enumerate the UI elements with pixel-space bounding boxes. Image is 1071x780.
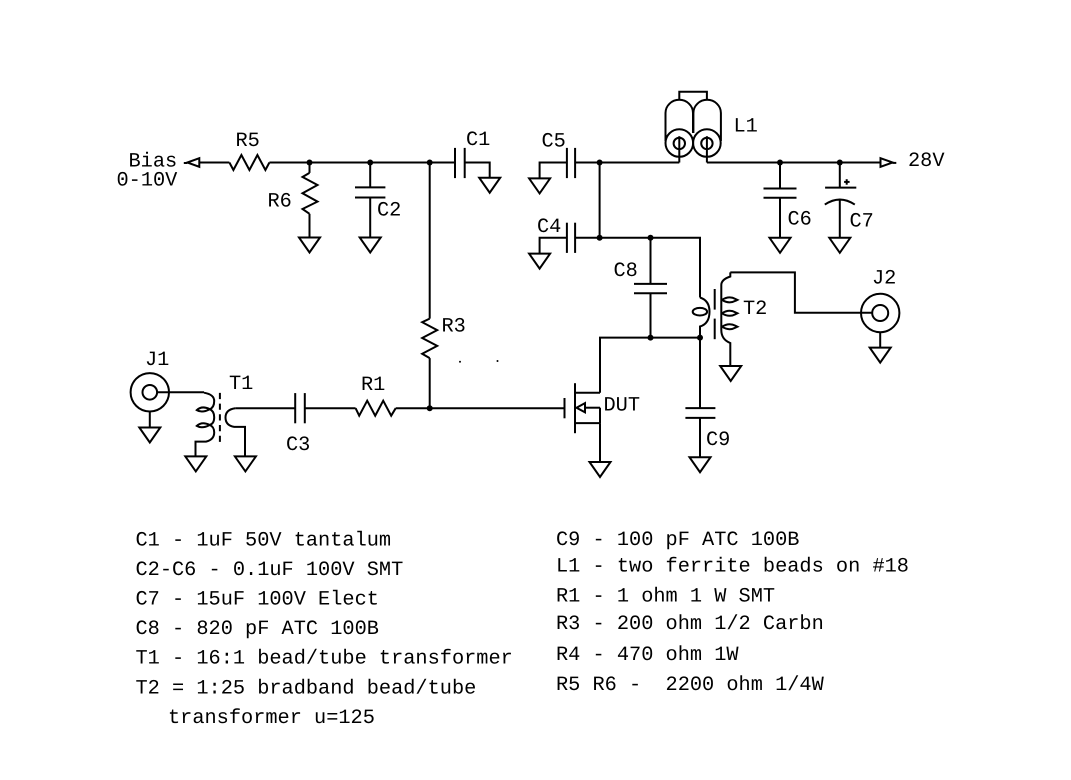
ground (C1) [479,178,500,193]
svg-text:C7 - 15uF 100V Elect: C7 - 15uF 100V Elect [136,589,379,612]
wire junction down to C4 rail [599,163,601,238]
wire DUT source to ground [599,423,601,462]
ground (J1) [139,428,160,443]
svg-text:R3 - 200 ohm 1/2 Carbn: R3 - 200 ohm 1/2 Carbn [556,613,824,636]
wire L1 to 28V arrow (28V rail right) [707,162,880,164]
capacitor C7 polarity plus [844,179,850,185]
svg-text:L1: L1 [734,116,758,139]
svg-text:C2-C6 - 0.1uF 100V SMT: C2-C6 - 0.1uF 100V SMT [136,559,404,582]
wire T1 to C3 [235,407,295,409]
ground (C2) [360,238,381,253]
node junction C6 [777,160,783,166]
transistor DUT source stub [575,422,600,424]
wire R5 to C1 (top bias rail) [269,162,455,164]
wire J1 to ground [149,412,151,428]
wire R6 to ground [309,214,311,238]
ground (C5) [529,178,550,193]
ground (T1 primary) [185,456,206,471]
capacitor C7 top plate [825,187,856,189]
svg-text:J2: J2 [872,268,896,291]
svg-text:R3: R3 [442,315,466,338]
wire C5 left to ground [540,163,567,179]
ground (J2) [870,348,891,363]
ground (C6) [770,238,791,253]
node junction T2/C9 [697,335,703,341]
wire C5 to L1 (28V rail left) [575,162,679,164]
wire C2 to ground [369,198,371,238]
wire L1 top link [679,92,707,100]
bias input arrow [187,158,199,167]
node junction C7 [837,160,843,166]
svg-text:T2: T2 [743,298,767,321]
svg-text:R5 R6 - 2200 ohm 1/4W: R5 R6 - 2200 ohm 1/4W [556,674,825,697]
stray dot 1 [459,361,461,363]
svg-text:C9: C9 [706,429,730,452]
wire C7 to ground [839,200,841,238]
transformer T2 secondary loop 1 [722,297,737,302]
transformer T1 secondary winding [226,408,246,456]
capacitor C6 [764,188,797,190]
svg-text:C1 - 1uF 50V tantalum: C1 - 1uF 50V tantalum [136,529,392,552]
wire bias arrow to R5 [199,162,229,164]
ground (DUT) [590,462,611,477]
svg-text:C5: C5 [542,131,566,154]
node junction C8 top [648,235,654,241]
svg-text:C2: C2 [377,200,401,223]
wire C9 to ground [699,418,701,457]
wire T2 secondary to J2 [730,272,872,312]
svg-text:0-10V: 0-10V [117,170,179,193]
wire junction to C2 [369,163,371,188]
svg-text:C7: C7 [850,211,874,234]
transformer T1 primary tick 2 [197,423,210,427]
wire C4 left to ground [540,238,567,254]
resistor R5 [229,155,269,170]
wire J2 to ground [879,332,881,347]
svg-text:C8 - 820 pF ATC 100B: C8 - 820 pF ATC 100B [136,618,379,641]
stray dot 2 [497,360,499,362]
transformer T1 primary winding [196,393,215,457]
resistor R1 [356,401,396,416]
node junction C5/C4 [597,160,603,166]
wire drain rail [600,338,651,393]
svg-text:R1 - 1 ohm 1 W SMT: R1 - 1 ohm 1 W SMT [556,586,775,609]
svg-text:DUT: DUT [604,394,641,417]
ground (C7) [829,238,850,253]
node junction C1/R3 [427,160,433,166]
svg-text:C4: C4 [537,216,561,239]
transformer T2 secondary loop 3 [722,324,737,329]
capacitor C8 [634,283,667,285]
ground (R6) [299,238,320,253]
transformer T2 primary winding [700,298,710,338]
wire C3 to R1 [305,407,356,409]
capacitor C1 [454,148,456,178]
node junction R3/gate [427,405,433,411]
wire C8 to lower node [650,293,652,337]
capacitor C5 [566,148,568,178]
svg-text:R1: R1 [361,374,385,397]
resistor R3 [422,319,437,359]
capacitor C2 [355,186,385,188]
svg-text:R6: R6 [268,190,292,213]
wire C6 to ground [779,198,781,238]
svg-text:C6: C6 [788,209,812,232]
node junction C8 bottom [648,335,654,341]
wire junction to C6 [779,163,781,189]
transformer T2 core [714,289,716,310]
ground (C9) [690,457,711,472]
transistor DUT gate bar [564,398,566,418]
inductor L1 ferrite bead 1 [666,100,694,141]
svg-text:L1 - two ferrite beads on #18: L1 - two ferrite beads on #18 [556,555,909,578]
28V output arrow [881,158,893,167]
svg-text:J1: J1 [145,349,169,372]
connector J1 [131,373,169,411]
transformer T1 primary tick 1 [197,407,210,411]
svg-text:R5: R5 [236,130,260,153]
ground (T2 secondary) [720,366,741,381]
svg-text:C8: C8 [614,260,638,283]
svg-text:C3: C3 [286,434,310,457]
wire node to C9 [699,338,701,409]
transformer T1 core [219,393,221,444]
node junction R6 [307,160,313,166]
svg-text:28V: 28V [908,150,945,173]
connector J2 [861,294,899,332]
transformer T2 primary bead [693,308,707,316]
node parts list left column [136,529,513,730]
wire C1 to ground [465,163,490,178]
capacitor C9 [685,407,715,409]
transistor DUT source arrow [577,403,586,412]
svg-text:T1: T1 [229,373,253,396]
svg-text:T1 - 16:1 bead/tube transforme: T1 - 16:1 bead/tube transformer [136,648,513,671]
node junction C2 [367,160,373,166]
capacitor C3 [294,393,296,423]
transformer T2 secondary loop 2 [722,311,737,316]
node Bias 0-10V label [117,150,179,192]
capacitor C7 curved plate [825,200,855,205]
transistor DUT channel bar [574,383,576,433]
transistor DUT drain stub [575,392,600,394]
wire R1 to DUT gate [396,407,565,409]
node 28V label [908,150,945,173]
wire junction to C8 [650,238,652,284]
transformer T2 secondary winding [721,272,730,366]
capacitor C4 [566,223,568,253]
svg-text:T2 = 1:25 bradband bead/tube: T2 = 1:25 bradband bead/tube [136,677,477,700]
inductor L1 ferrite bead 2 [693,100,721,141]
wire J1 to T1 primary [157,391,204,393]
svg-text:R4 - 470 ohm 1W: R4 - 470 ohm 1W [556,644,739,667]
resistor R6 [303,173,318,214]
svg-text:transformer u=125: transformer u=125 [168,707,375,730]
wire junction down to R3 [429,163,431,319]
wire C8 node to T2 node [651,337,701,339]
wire R3 to gate junction [429,358,431,408]
ground (T1 secondary) [235,456,256,471]
node parts list right column [556,529,909,697]
node junction C4/C5 branch [597,235,603,241]
wire junction to R6 [309,163,311,173]
svg-text:C1: C1 [466,129,490,152]
svg-text:C9 - 100 pF ATC 100B: C9 - 100 pF ATC 100B [556,529,799,552]
wire C4 to T2 primary top [575,238,700,298]
ground (C4) [529,254,550,269]
wire junction to C7 [839,163,841,188]
